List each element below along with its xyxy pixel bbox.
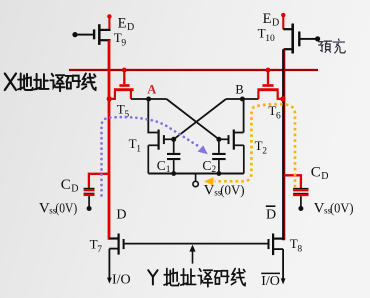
annotation: purple dotted discharge path (D line to C2)	[102, 117, 201, 195]
label: T10	[258, 26, 275, 45]
transistor T7 (column I/O gate MOSFET, left)	[109, 234, 123, 279]
svg-text:B: B	[235, 83, 243, 97]
label: T1	[129, 136, 142, 155]
wire: cross-couple B to T1 gate (diagonal)	[174, 99, 226, 139]
label: Y地址译码线 (Y address decode line)	[148, 269, 245, 287]
svg-text:(0V): (0V)	[330, 202, 354, 217]
transistor T2 (flip-flop MOSFET right)	[219, 99, 244, 174]
annotation: orange dotted charge path (CD-bar through T6 to Vss)	[215, 104, 296, 187]
junction: T1 gate / C1 node (black dot)	[171, 137, 176, 142]
wire: node B horizontal	[226, 98, 259, 100]
label: C2	[202, 158, 216, 175]
svg-text:5: 5	[124, 110, 129, 120]
svg-text:10: 10	[265, 34, 275, 44]
capacitor CD right (red, bit-line capacitance)	[284, 175, 309, 211]
svg-text:I/O: I/O	[112, 272, 131, 287]
ground: Vss terminal (open circle)	[193, 174, 198, 187]
capacitor C1	[167, 139, 180, 173]
svg-text:2: 2	[211, 165, 216, 175]
annotation: purple arrowhead at C2	[198, 145, 208, 154]
label: T2	[255, 138, 268, 157]
svg-text:I/O: I/O	[261, 274, 280, 289]
node: ED supply terminal right (red dot)	[281, 13, 285, 30]
label: node D-bar (right bit line)	[266, 206, 276, 222]
wire: flip-flop ground rail	[148, 173, 243, 175]
junction: C2 to ground rail (black dot)	[217, 171, 222, 176]
svg-text:6: 6	[276, 111, 281, 121]
svg-text:1: 1	[136, 144, 141, 154]
svg-text:8: 8	[297, 245, 302, 255]
transistor T6 (row-select MOSFET, right, red)	[257, 68, 282, 99]
label: CD (left)	[61, 177, 79, 195]
label: Vss(0V) left	[39, 200, 78, 216]
svg-text:D: D	[127, 22, 134, 33]
transistor T8 (column I/O gate MOSFET, right)	[269, 234, 284, 280]
label: T6	[268, 103, 281, 122]
svg-text:D: D	[321, 171, 328, 182]
svg-text:V: V	[39, 200, 50, 216]
label: Vss(0V) center	[204, 182, 245, 198]
capacitor C2	[212, 139, 225, 173]
wire: I/O-bar arrow right (down arrow)	[281, 278, 286, 284]
junction: node A (black dot)	[146, 97, 151, 102]
transistor T10 (precharge MOSFET, right)	[283, 24, 320, 54]
svg-text:E: E	[263, 11, 272, 27]
label: T8	[290, 236, 303, 255]
svg-text:C: C	[157, 158, 166, 173]
svg-text:2: 2	[262, 146, 267, 156]
svg-text:7: 7	[97, 245, 102, 255]
node: ED supply terminal left (red dot)	[107, 14, 111, 29]
label: Vss(0V) right	[314, 201, 354, 217]
transistor T5 (row-select MOSFET, left, red)	[110, 68, 134, 99]
svg-text:(0V): (0V)	[55, 201, 77, 216]
svg-text:C: C	[61, 177, 71, 193]
annotation: orange arrowhead at Vss	[204, 177, 214, 185]
svg-text:A: A	[147, 82, 156, 96]
transistor T1 (flip-flop MOSFET left)	[148, 130, 173, 174]
label: CD (right)	[311, 164, 329, 182]
svg-text:V: V	[314, 201, 325, 217]
wire: Y decode pointer arrow (up arrow)	[189, 245, 195, 264]
svg-text:D: D	[272, 17, 279, 28]
wire: X address decode line (net X地址译码线)	[69, 69, 318, 71]
label: ED (right supply)	[263, 11, 280, 28]
svg-text:9: 9	[121, 39, 126, 49]
wire: node A down to T1 drain	[148, 99, 158, 133]
junction: node B (black dot)	[240, 97, 245, 102]
wire: I/O arrow left (down arrow)	[107, 278, 112, 284]
svg-text:C: C	[311, 164, 321, 180]
label: T7	[90, 236, 103, 255]
svg-text:C: C	[202, 158, 211, 173]
capacitor CD left (red, bit-line capacitance)	[84, 174, 110, 211]
label: C1	[157, 158, 171, 175]
junction: T2 gate / C2 node (black dot)	[216, 137, 221, 142]
svg-text:D: D	[71, 183, 78, 194]
wire: Y select line (T7 gate to T8 gate)	[125, 243, 268, 245]
wire: node A horizontal	[131, 98, 167, 100]
label: 预充 (precharge)	[319, 39, 346, 53]
label: T5	[117, 102, 130, 121]
junction: T5 source to bit line D (red dot)	[107, 96, 112, 101]
svg-text:D: D	[266, 208, 276, 223]
wire: cross-couple A to T2 gate (diagonal)	[167, 99, 219, 139]
junction: T6 drain to bit line D-bar (red dot)	[280, 96, 285, 101]
transistor T9 (precharge MOSFET, left)	[72, 24, 110, 45]
wire: right bit line D-bar (black vertical)	[282, 49, 285, 240]
label: I/O-bar right	[261, 273, 280, 289]
wire: left bit line D (red vertical)	[108, 40, 111, 240]
wire: dark red edge of right bit line near T8	[284, 50, 286, 240]
junction: C1 to ground rail (black dot)	[171, 171, 176, 176]
svg-text:D: D	[116, 207, 126, 222]
label: X地址译码线 (X address decode line)	[5, 74, 96, 92]
svg-text:(0V): (0V)	[220, 183, 245, 198]
label: ED (left supply)	[118, 15, 135, 32]
label: T9	[114, 30, 127, 49]
